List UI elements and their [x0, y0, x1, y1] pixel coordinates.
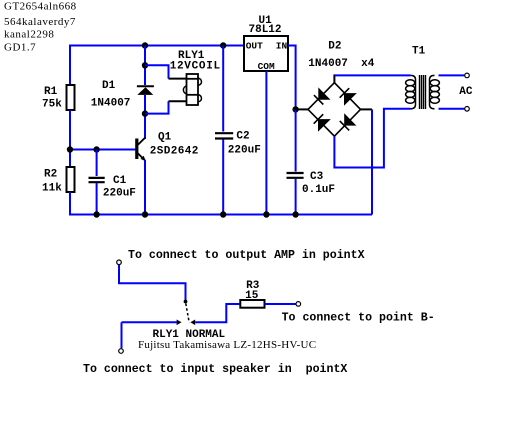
switch RLY1 blade	[186, 304, 189, 323]
wire U1 COM to bus	[265, 71, 267, 215]
svg-text:To connect to output AMP in po: To connect to output AMP in pointX	[128, 249, 365, 262]
wire U1 IN to bridge left	[288, 46, 296, 110]
junction C1-bus	[93, 211, 99, 217]
wire bridge right to bus	[361, 109, 373, 214]
relay coil RLY1	[183, 74, 201, 105]
diode D2b top-right	[340, 88, 357, 106]
svg-text:564kalaverdy7: 564kalaverdy7	[4, 16, 76, 28]
wire base node horizontal	[69, 149, 136, 151]
diode D1	[137, 86, 154, 95]
transistor Q1	[135, 138, 146, 161]
terminal point B-	[296, 302, 301, 307]
capacitor C2	[215, 133, 233, 138]
node switch pivot	[184, 300, 188, 304]
wire right contact to R3	[196, 304, 241, 322]
wire R1 top branch	[69, 45, 71, 87]
diode D2a top-left	[314, 87, 331, 104]
diode D2d bottom-right	[340, 113, 357, 130]
svg-text:T1: T1	[412, 46, 426, 58]
svg-text:0.1uF: 0.1uF	[302, 184, 335, 196]
wire T1 secondary bottom lead	[439, 108, 465, 110]
junction C2-bus	[220, 211, 226, 217]
header note text	[4, 1, 77, 54]
junction base-C1	[93, 146, 99, 152]
svg-text:R2: R2	[44, 169, 57, 181]
terminal AC top	[465, 73, 470, 78]
wire C3 top lead	[295, 109, 297, 171]
wire R3 to B- terminal	[265, 303, 296, 305]
junction COM-bus	[263, 211, 269, 217]
wire R1 bottom to R2 top	[69, 110, 71, 167]
bridge rectifier D2 diamond	[308, 83, 361, 137]
junction C3-bus	[292, 211, 298, 217]
svg-text:IN: IN	[276, 40, 288, 51]
wire D1 cathode vertical	[144, 46, 146, 86]
wire R2 bottom and ground bus	[70, 192, 372, 215]
svg-text:kanal2298: kanal2298	[4, 29, 54, 41]
resistor R1	[67, 85, 75, 110]
switch right contact arrow	[190, 320, 197, 326]
wire D1 anode to Q1 collector	[144, 95, 146, 139]
svg-text:R1: R1	[44, 86, 58, 98]
wire C2 top lead	[222, 46, 224, 132]
wire T1 secondary top lead	[439, 74, 465, 76]
svg-text:Fujitsu Takamisawa LZ-12HS-HV-: Fujitsu Takamisawa LZ-12HS-HV-UC	[138, 339, 316, 351]
terminal AC bottom	[465, 107, 470, 112]
svg-text:C1: C1	[113, 175, 127, 187]
wire top supply bus	[70, 45, 244, 47]
node relay coil bottom	[142, 110, 148, 116]
junction C2 branch-top bus	[220, 42, 226, 48]
svg-text:COM: COM	[258, 61, 275, 72]
junction bridge left node	[292, 106, 298, 112]
wire relay coil top lead	[145, 65, 187, 78]
junction D1 branch-top bus	[142, 42, 148, 48]
svg-text:15: 15	[245, 290, 259, 302]
svg-text:12VCOIL: 12VCOIL	[170, 61, 221, 73]
wire Q1 emitter to bus	[144, 160, 146, 215]
wire left contact to speaker terminal	[122, 322, 177, 348]
node relay coil top	[142, 62, 148, 68]
svg-text:78L12: 78L12	[249, 24, 282, 36]
svg-text:GT2654aln668: GT2654aln668	[4, 1, 77, 13]
capacitor C3	[287, 173, 304, 178]
svg-text:OUT: OUT	[246, 40, 263, 51]
svg-text:1N4007 x4: 1N4007 x4	[308, 58, 374, 70]
svg-text:D1: D1	[102, 80, 116, 92]
wire C1 bottom lead to bus	[96, 183, 98, 215]
svg-text:To connect to point B-: To connect to point B-	[282, 311, 435, 324]
wire bridge bottom to T1 primary bottom	[334, 109, 410, 168]
terminal input speaker	[119, 349, 124, 354]
wire bridge top to T1 primary top	[334, 74, 410, 82]
wire terminal to switch common	[119, 265, 186, 301]
terminal output AMP	[117, 260, 122, 265]
junction R1/R2-base	[67, 146, 73, 152]
svg-text:220uF: 220uF	[228, 144, 261, 156]
wire bridge left lead	[296, 108, 308, 110]
wire C3 bottom lead to bus	[295, 179, 297, 215]
svg-text:AC: AC	[459, 86, 473, 98]
diode D2c bottom-left	[314, 114, 331, 132]
svg-text:Q1: Q1	[158, 132, 172, 144]
svg-text:220uF: 220uF	[103, 187, 136, 199]
regulator U1 box	[244, 36, 288, 71]
svg-text:D2: D2	[328, 40, 341, 52]
svg-text:2SD2642: 2SD2642	[150, 146, 199, 158]
svg-text:1N4007: 1N4007	[91, 98, 131, 110]
resistor R3	[240, 300, 264, 308]
resistor R2	[67, 167, 75, 192]
junction Q1-bus	[142, 211, 148, 217]
wire C2 bottom lead to bus	[222, 140, 224, 215]
wire relay coil bottom lead	[145, 101, 187, 113]
svg-text:75k: 75k	[42, 99, 62, 111]
svg-text:C2: C2	[236, 131, 249, 143]
svg-text:To connect to input speaker in: To connect to input speaker in pointX	[83, 363, 347, 376]
wire C1 top lead	[96, 150, 98, 177]
svg-text:C3: C3	[310, 171, 324, 183]
svg-text:GD1.7: GD1.7	[4, 41, 36, 53]
svg-text:11k: 11k	[42, 182, 62, 194]
transformer T1	[406, 75, 440, 109]
switch left contact arrow	[177, 320, 182, 326]
capacitor C1	[89, 178, 105, 182]
